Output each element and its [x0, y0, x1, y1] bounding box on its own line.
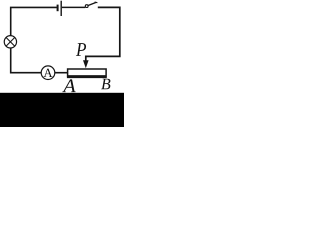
- lamp (circle with X): [4, 36, 16, 48]
- label P (slider): [76, 43, 86, 56]
- black censor bar at bottom: [0, 93, 124, 127]
- rheostat body (resistor box): [67, 69, 107, 77]
- wire switch to top-right corner, down right side, left to slider: [86, 7, 120, 61]
- switch (open knife switch): [85, 2, 97, 7]
- label A (left terminal): [62, 79, 76, 92]
- label B (right terminal): [101, 79, 110, 90]
- battery cell: long thin positive bar: [61, 1, 62, 16]
- battery cell: short thick negative bar: [57, 5, 59, 12]
- wire battery to switch: [62, 6, 85, 8]
- wire ammeter to rheostat terminal A: [55, 72, 68, 74]
- wire top-left: battery to top-left corner, down to lamp: [11, 7, 57, 35]
- wire left-bottom: lamp down, corner, right to ammeter: [11, 48, 42, 73]
- rheostat slider arrow (down onto body): [83, 60, 89, 68]
- ammeter (circle with A): [41, 66, 55, 80]
